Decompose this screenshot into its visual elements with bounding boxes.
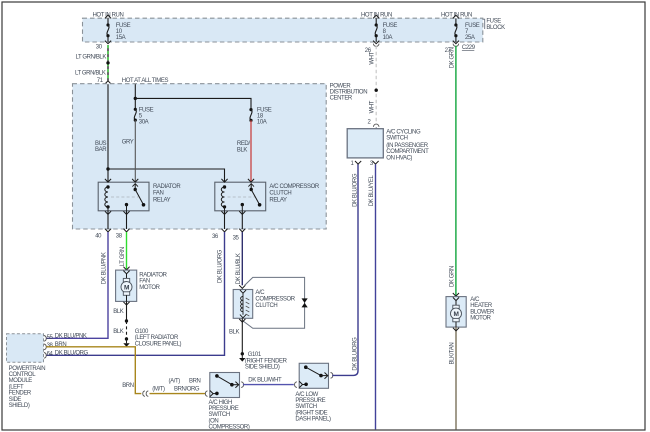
wire BLK below radiator fan motor xyxy=(113,301,129,338)
node HOT IN RUN (fuse 7 feed) xyxy=(441,12,472,18)
motor M1 radiator fan motor xyxy=(116,270,137,301)
svg-text:FAN: FAN xyxy=(153,191,164,197)
svg-text:DK BLU/WHT: DK BLU/WHT xyxy=(248,378,282,384)
svg-text:RADIATOR: RADIATOR xyxy=(139,272,167,278)
svg-text:35: 35 xyxy=(233,235,240,241)
svg-text:SIDE SHIELD): SIDE SHIELD) xyxy=(245,365,280,371)
svg-text:BLOWER: BLOWER xyxy=(470,309,495,315)
pin 30 exit arrow of fuse 10 xyxy=(96,41,111,51)
svg-text:DK BLU/ORG: DK BLU/ORG xyxy=(353,173,359,207)
node HOT IN RUN (fuse 10 feed) xyxy=(93,12,124,18)
svg-text:1: 1 xyxy=(351,161,355,167)
fuse FUSE 10 15A xyxy=(106,18,130,42)
switch S3 label xyxy=(386,130,429,162)
wire DK BLU/YEL from cycling switch pin 3 to bottom xyxy=(369,164,376,429)
svg-text:RADIATOR: RADIATOR xyxy=(153,184,181,190)
svg-text:DK BLU/PNK: DK BLU/PNK xyxy=(55,334,87,340)
pin 26 exit connector of fuse 8 xyxy=(365,41,380,55)
diode D1 loop around clutch xyxy=(243,277,308,328)
powertrain control module label xyxy=(9,366,46,409)
svg-text:BUS: BUS xyxy=(95,141,107,147)
node pin 71 entry arrow into PDC xyxy=(97,78,111,84)
wire bus branch to A/C relay coil xyxy=(108,169,225,182)
svg-text:BLOCK: BLOCK xyxy=(486,25,505,31)
pin 27 / connector C229 exit of fuse 7 xyxy=(445,41,476,55)
svg-text:30A: 30A xyxy=(139,120,149,126)
wire GRY from fuse 5 to radiator fan relay xyxy=(122,120,136,182)
svg-text:BAR: BAR xyxy=(95,147,107,153)
connector at high pressure switch output xyxy=(241,382,243,388)
svg-text:A/C: A/C xyxy=(255,290,265,296)
svg-text:G100: G100 xyxy=(135,329,149,335)
svg-text:DK GRN: DK GRN xyxy=(449,47,455,68)
svg-text:DK BLU/PNK: DK BLU/PNK xyxy=(102,252,108,284)
switch S3 A/C cycling switch box xyxy=(347,129,383,158)
wire LT GRN/BLK from fuse 10 to PDC pin 71 xyxy=(75,45,110,81)
svg-text:BLK: BLK xyxy=(229,330,240,336)
svg-text:RELAY: RELAY xyxy=(153,197,171,203)
svg-text:COMPRESSOR): COMPRESSOR) xyxy=(209,425,250,431)
svg-text:CLOSURE PANEL): CLOSURE PANEL) xyxy=(135,341,182,347)
svg-text:CENTER: CENTER xyxy=(330,96,353,102)
wire BRN/ORG (M/T) BRN (A/T) segment to high pressure switch xyxy=(150,378,206,393)
power distribution center box xyxy=(73,84,327,229)
svg-text:PRESSURE: PRESSURE xyxy=(209,406,239,412)
svg-text:15A: 15A xyxy=(116,35,126,41)
svg-text:DASH PANEL): DASH PANEL) xyxy=(295,417,331,423)
fuse FUSE 5 30A xyxy=(134,108,154,126)
inline connector (double) on BRN wire xyxy=(143,391,149,397)
svg-text:SIDE: SIDE xyxy=(9,397,22,403)
svg-text:FAN: FAN xyxy=(139,279,150,285)
svg-text:CLUTCH: CLUTCH xyxy=(269,191,291,197)
svg-text:DK BLU/BLK: DK BLU/BLK xyxy=(236,253,242,284)
ground G101 xyxy=(239,352,288,371)
svg-text:10A: 10A xyxy=(383,35,393,41)
switch S2 label xyxy=(295,392,331,423)
relay K1 switch xyxy=(125,184,146,211)
svg-text:LT GRN/BLK: LT GRN/BLK xyxy=(75,70,106,76)
wire relay K2 pin 36 to PDC edge xyxy=(212,211,228,240)
wire DK GRN from fuse 7 to blower motor xyxy=(449,46,456,296)
wire DK BLU/ORG from pin 36 to PCM pin 64 xyxy=(46,232,224,355)
svg-text:RELAY: RELAY xyxy=(269,197,287,203)
powertrain control module box xyxy=(7,334,44,363)
svg-text:WHT: WHT xyxy=(369,100,375,113)
svg-text:COMPARTMENT: COMPARTMENT xyxy=(386,149,429,155)
svg-text:SWITCH: SWITCH xyxy=(295,404,316,410)
connector at low pressure switch input xyxy=(295,382,297,388)
svg-text:A/C HIGH: A/C HIGH xyxy=(209,400,233,406)
relay K1 coil xyxy=(105,185,110,211)
fuse FUSE 18 10A xyxy=(249,108,271,126)
svg-text:M: M xyxy=(454,311,459,318)
switch S1 A/C high pressure switch box xyxy=(210,373,240,398)
PCM pin 64 connector xyxy=(44,351,89,359)
power distribution center label xyxy=(330,83,368,101)
svg-text:PRESSURE: PRESSURE xyxy=(295,398,325,404)
wire BLK/TAN below blower motor to bottom xyxy=(449,327,459,429)
svg-text:A/C: A/C xyxy=(470,297,480,303)
svg-text:25A: 25A xyxy=(465,35,475,41)
relay K2 A/C compressor clutch relay box xyxy=(215,179,266,211)
svg-text:HOT AT ALL TIMES: HOT AT ALL TIMES xyxy=(122,78,169,84)
motor M2 A/C heater blower motor xyxy=(446,293,466,327)
wire DK BLU/BLK from pin 35 to A/C compressor clutch xyxy=(236,232,245,288)
svg-text:(ON: (ON xyxy=(209,418,219,424)
wire BLK below clutch to ground G101 xyxy=(229,318,245,353)
svg-text:A/C CYCLING: A/C CYCLING xyxy=(386,130,421,136)
wire relay K1 pin 40 to PDC edge xyxy=(95,211,111,240)
PCM pin 55 connector xyxy=(44,334,87,342)
svg-text:BLK: BLK xyxy=(237,148,248,154)
wire LT GRN from pin 38 to radiator fan motor xyxy=(120,232,129,270)
svg-text:GRY: GRY xyxy=(122,139,134,145)
svg-text:DK BLU/ORG: DK BLU/ORG xyxy=(352,337,358,371)
relay K2 label xyxy=(269,184,319,204)
wire WHT from fuse 8 to A/C cycling switch pin 2 xyxy=(368,46,378,126)
svg-text:(A/T): (A/T) xyxy=(169,378,181,384)
switch S1 label xyxy=(209,400,250,431)
svg-text:(LEFT RADIATOR: (LEFT RADIATOR xyxy=(135,335,179,341)
ground G100 xyxy=(123,329,181,347)
connector at low pressure switch output xyxy=(331,373,333,379)
svg-text:(LEFT: (LEFT xyxy=(9,384,24,390)
svg-text:BLK/TAN: BLK/TAN xyxy=(449,343,455,365)
wire RED/BLK from fuse 18 to A/C compressor clutch relay xyxy=(237,120,251,182)
fuse FUSE 8 10A xyxy=(375,18,398,42)
svg-text:(IN PASSENGER: (IN PASSENGER xyxy=(386,143,428,149)
wire DK BLU/WHT to A/C low pressure switch xyxy=(243,378,294,385)
svg-text:DISTRIBUTION: DISTRIBUTION xyxy=(330,90,368,96)
connector at high pressure switch input xyxy=(205,391,207,397)
wire fuse 5 feed from top bus xyxy=(134,84,137,109)
svg-text:BLK: BLK xyxy=(113,309,124,315)
svg-text:(RIGHT SIDE: (RIGHT SIDE xyxy=(295,410,327,416)
svg-text:MODULE: MODULE xyxy=(9,378,33,384)
switch S3 pin 1 xyxy=(351,161,362,167)
clutch L1 A/C compressor clutch box xyxy=(233,290,253,319)
svg-text:RED/: RED/ xyxy=(237,141,250,147)
clutch L1 label xyxy=(255,290,295,309)
svg-text:71: 71 xyxy=(97,78,104,84)
connector at cycling switch pin 2 xyxy=(373,124,379,127)
svg-text:FUSE: FUSE xyxy=(486,18,501,24)
svg-text:SWITCH: SWITCH xyxy=(386,136,407,142)
svg-text:(M/T): (M/T) xyxy=(152,386,165,392)
svg-text:SWITCH: SWITCH xyxy=(209,412,230,418)
svg-text:MOTOR: MOTOR xyxy=(139,285,160,291)
PCM pin 38 connector xyxy=(44,342,66,350)
svg-text:DK GRN: DK GRN xyxy=(449,266,455,287)
svg-text:40: 40 xyxy=(95,233,102,239)
relay K2 coil xyxy=(221,185,226,211)
relay K1 label xyxy=(153,184,181,204)
svg-text:BRN/ORG: BRN/ORG xyxy=(174,386,200,392)
svg-text:FENDER: FENDER xyxy=(9,391,32,397)
svg-text:BLK: BLK xyxy=(113,329,124,335)
svg-text:M: M xyxy=(124,284,129,291)
relay K1 radiator fan relay box xyxy=(98,179,149,211)
svg-text:A/C LOW: A/C LOW xyxy=(295,392,318,398)
svg-text:2: 2 xyxy=(368,119,372,125)
svg-text:A/C COMPRESSOR: A/C COMPRESSOR xyxy=(269,184,319,190)
svg-text:38: 38 xyxy=(116,233,123,239)
fuse FUSE 7 25A xyxy=(454,18,480,42)
svg-text:G101: G101 xyxy=(248,352,262,358)
svg-text:SHIELD): SHIELD) xyxy=(9,403,30,409)
switch S2 A/C low pressure switch box xyxy=(299,363,328,388)
svg-text:WHT: WHT xyxy=(369,51,375,64)
svg-text:LT GRN: LT GRN xyxy=(120,247,126,266)
svg-text:ON HVAC): ON HVAC) xyxy=(386,155,412,161)
relay K2 switch xyxy=(241,184,262,211)
svg-text:DK BLU/ORG: DK BLU/ORG xyxy=(218,249,224,283)
svg-text:LT GRN/BLK: LT GRN/BLK xyxy=(76,55,107,61)
wire relay K2 pin 35 to PDC edge xyxy=(233,211,246,242)
svg-text:CONTROL: CONTROL xyxy=(9,372,37,378)
wire DK BLU/ORG from low pressure switch to cycling switch pin 1 xyxy=(332,164,358,375)
node HOT IN RUN (fuse 8 feed) xyxy=(361,12,392,18)
svg-text:10A: 10A xyxy=(257,120,267,126)
svg-text:CLUTCH: CLUTCH xyxy=(255,303,277,309)
switch S3 pin 3 xyxy=(370,161,379,167)
svg-text:(RIGHT FENDER: (RIGHT FENDER xyxy=(245,358,288,364)
wire DK BLU/PNK from pin 40 to PCM pin 55 xyxy=(46,232,108,338)
svg-text:DK BLU/ORG: DK BLU/ORG xyxy=(55,351,89,357)
motor M1 label xyxy=(139,272,167,290)
svg-text:BRN: BRN xyxy=(189,378,201,384)
svg-text:36: 36 xyxy=(212,234,219,240)
svg-text:COMPRESSOR: COMPRESSOR xyxy=(255,297,295,303)
wire BRN from PCM pin 38 to A/C high pressure switch xyxy=(46,347,141,394)
svg-text:DK BLU/YEL: DK BLU/YEL xyxy=(369,175,375,207)
svg-text:HEATER: HEATER xyxy=(470,303,493,309)
fuse block box xyxy=(83,18,483,42)
fuse block bracket and label xyxy=(483,18,505,31)
svg-text:BRN: BRN xyxy=(122,383,134,389)
svg-text:MOTOR: MOTOR xyxy=(470,316,491,322)
wire branch to fuse 18 xyxy=(135,98,251,109)
wire relay K1 pin 38 to PDC edge xyxy=(116,211,130,240)
motor M2 label xyxy=(470,297,495,322)
svg-text:POWERTRAIN: POWERTRAIN xyxy=(9,366,46,372)
svg-text:30: 30 xyxy=(96,45,103,51)
svg-text:POWER: POWER xyxy=(330,83,352,89)
wire bus bar vertical xyxy=(95,84,110,182)
